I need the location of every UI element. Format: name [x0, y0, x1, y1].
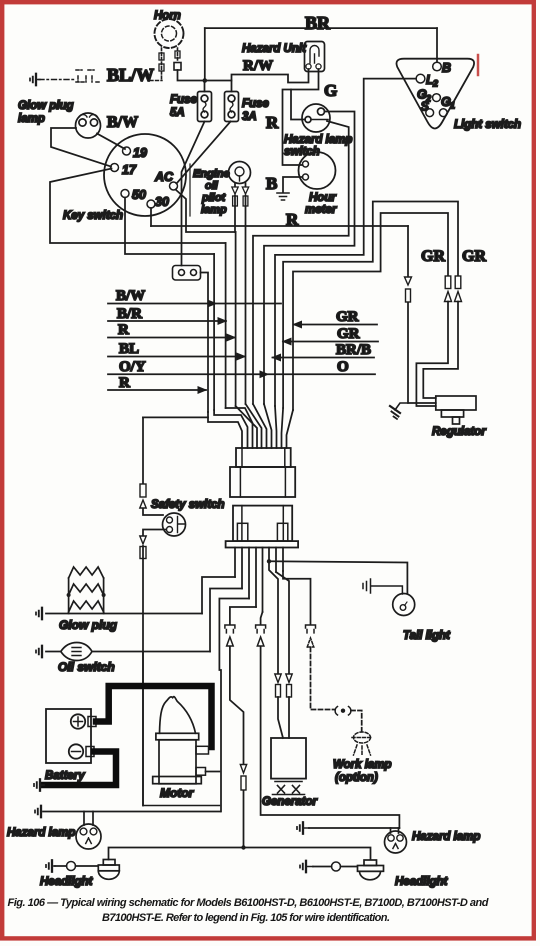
hazard lamp (left)	[76, 812, 101, 850]
ground (right hazard)	[297, 822, 303, 833]
svg-text:O: O	[337, 359, 349, 375]
node glow plug rails	[67, 593, 71, 597]
cable battery positive to motor (thick)	[96, 686, 212, 747]
svg-text:R: R	[286, 210, 299, 229]
wire left headlight lead	[55, 865, 98, 867]
svg-text:50: 50	[132, 188, 146, 202]
terminal AC	[170, 182, 178, 190]
wire below pair 1 to headlight bus	[230, 647, 244, 848]
svg-text:B: B	[266, 174, 277, 193]
svg-text:Glow plug: Glow plug	[18, 100, 74, 112]
wire lower comb from connector	[235, 548, 283, 613]
connector pair 2 (socket and plug)	[256, 625, 266, 646]
wire light switch B lead	[436, 28, 438, 61]
inline connector (right headlight)	[332, 862, 341, 871]
svg-text:B7100HST-E. Refer to legend in: B7100HST-E. Refer to legend in Fig. 105 …	[102, 912, 390, 924]
connector block upper (male)	[230, 448, 295, 497]
svg-text:Engine: Engine	[193, 168, 230, 180]
wire row R with arrow	[108, 334, 235, 340]
wire w7 to generator lead 2	[276, 572, 289, 738]
inline connector (left headlight)	[67, 862, 76, 871]
connector horn right lead (solid)	[174, 63, 181, 71]
connector pair 3 (work lamp, socket and dashed plug)	[306, 625, 316, 647]
generator	[271, 738, 306, 795]
svg-text:Safety switch: Safety switch	[151, 499, 225, 511]
wire hazard switch terminal to bundle	[264, 112, 355, 405]
wire glow lamp left lead to key 17	[51, 128, 111, 167]
svg-text:17: 17	[122, 163, 137, 177]
svg-text:Work lamp: Work lamp	[333, 759, 392, 771]
svg-text:Hour: Hour	[309, 192, 336, 204]
ground (left headlight)	[46, 860, 52, 871]
svg-text:lamp: lamp	[18, 113, 45, 125]
ground (regulator)	[390, 403, 408, 419]
wire row BR/B with arrow	[273, 354, 375, 360]
pointer line (oil lamp label)	[189, 164, 191, 216]
svg-text:B/R: B/R	[117, 306, 142, 322]
ground (tail light)	[363, 579, 402, 594]
svg-text:2: 2	[432, 79, 438, 89]
wire key 30 riser to R line	[150, 208, 152, 226]
svg-text:19: 19	[133, 146, 147, 160]
tail light	[393, 594, 415, 616]
wire glow plug bottom line	[46, 613, 202, 615]
wire fuse 3A bottom to AC	[177, 122, 231, 184]
svg-text:5A: 5A	[170, 107, 185, 119]
wire dash-dot horn button line BL/W	[39, 79, 74, 81]
svg-text:Motor: Motor	[160, 786, 195, 800]
ground (battery)	[34, 779, 40, 790]
terminal 17	[111, 164, 119, 172]
motor enclosure	[143, 652, 219, 806]
svg-text:lamp: lamp	[201, 204, 227, 216]
connector bullet (headlight wire)	[240, 765, 246, 791]
motor	[153, 697, 209, 784]
svg-text:AC: AC	[154, 170, 174, 184]
cable battery negative to ground (thick)	[44, 752, 116, 786]
svg-text:Oil switch: Oil switch	[58, 660, 115, 674]
wire fuse 5A top	[204, 83, 206, 92]
svg-text:BL: BL	[119, 341, 139, 357]
terminal 30	[147, 200, 155, 208]
wire row R bottom with arrow	[108, 387, 206, 393]
hazard lamp (right)	[385, 828, 407, 853]
connector (2-pin, key switch feed)	[173, 266, 201, 281]
work lamp (dashed symbol)	[352, 732, 372, 756]
svg-text:pilot: pilot	[201, 192, 227, 204]
hazard lamp switch	[302, 104, 330, 132]
wire tail light feed	[269, 561, 407, 593]
key switch	[104, 134, 186, 216]
wire right headlight lead	[313, 866, 357, 868]
svg-text:Horn: Horn	[154, 10, 181, 22]
red mark artifact	[477, 55, 480, 75]
wire dashes after BL/W	[150, 80, 162, 82]
connector bullet (GR2)	[445, 276, 452, 302]
wire motor terminal to w3	[206, 771, 220, 773]
svg-text:GR: GR	[421, 248, 445, 265]
fuse F2 3A	[225, 92, 239, 122]
wire work lamp (dashed)	[311, 648, 336, 710]
wire oil switch right to motor area	[92, 651, 210, 653]
wire safety switch lower with connector	[140, 530, 166, 806]
svg-text:Fuse: Fuse	[242, 98, 269, 110]
svg-text:B/W: B/W	[107, 114, 138, 131]
oil switch	[61, 643, 92, 661]
headlight (right)	[358, 860, 384, 880]
svg-text:G: G	[324, 81, 337, 100]
svg-text:B/W: B/W	[116, 288, 145, 304]
wire left hazard lamp bus	[43, 811, 220, 813]
wire oil lamp left lead with connector	[232, 183, 238, 232]
wire L2 to bundle	[275, 79, 416, 406]
svg-text:B: B	[442, 61, 451, 75]
svg-text:Hazard lamp: Hazard lamp	[412, 831, 480, 843]
ground (hour meter)	[277, 193, 289, 200]
hour meter	[299, 152, 336, 189]
glow plug element	[69, 567, 104, 614]
wire w2 to oil switch line	[210, 589, 242, 652]
ground (left hazard)	[35, 806, 41, 817]
wire BR (to light switch B)	[205, 27, 437, 29]
battery	[46, 709, 96, 763]
wire row BL with arrow	[108, 353, 245, 359]
connector block lower (female)	[226, 506, 299, 548]
svg-text:Generator: Generator	[262, 796, 317, 808]
node headlight bus junction	[241, 845, 245, 849]
svg-text:Headlight: Headlight	[395, 876, 449, 888]
wire key 17 down-left and to bundle (B/R)	[50, 169, 226, 244]
ground (glow plug)	[36, 608, 42, 619]
wire staircase into upper connector	[208, 404, 293, 448]
wire bundle v3 (B/R) lower	[225, 243, 227, 408]
wire w3 to hazard lamp bus	[219, 599, 249, 812]
wire w4 to connector pair 1	[230, 607, 256, 625]
wire bundle v2 (B/W) lower	[213, 254, 215, 410]
ground (right headlight)	[300, 861, 306, 872]
wire headlight bus	[109, 848, 371, 860]
wire BR riser	[204, 28, 206, 80]
wire oil switch left to ground	[46, 651, 61, 653]
ground (horn button line)	[36, 79, 40, 81]
wire row B/W with arrow	[108, 300, 281, 306]
fuse F1 5A	[198, 92, 212, 122]
svg-text:3A: 3A	[242, 111, 257, 123]
svg-text:1: 1	[450, 101, 455, 111]
wire row B/R with arrow	[108, 318, 226, 324]
svg-text:O/Y: O/Y	[119, 359, 146, 375]
connector bullet (R wire)	[405, 277, 412, 302]
wire row GR1 with arrow	[294, 321, 378, 327]
svg-text:Hazard lamp: Hazard lamp	[7, 827, 75, 839]
terminal L2	[416, 74, 425, 83]
svg-text:R: R	[266, 113, 279, 132]
wire GR arch 2 to regulator	[293, 213, 448, 410]
wire below pair 2 to right hazard bus	[261, 647, 400, 829]
svg-text:S: S	[421, 100, 430, 114]
wire horn to junction	[178, 70, 232, 81]
node junction fuse 5A / BR	[203, 78, 208, 83]
glow plug lamp	[76, 113, 101, 138]
node tail light junction	[267, 559, 271, 563]
hazard unit	[305, 42, 325, 72]
terminal 50	[121, 190, 129, 198]
wire w1 to glow plug line	[202, 577, 235, 614]
wire AC to bundle (R row)	[176, 190, 236, 233]
wire safety switch upper with connector	[140, 417, 163, 515]
wire hazard switch lever to bundle	[253, 121, 349, 404]
svg-text:Fuse: Fuse	[170, 94, 197, 106]
wire bundle v4 (R) lower	[235, 232, 237, 406]
svg-text:Regulator: Regulator	[432, 426, 486, 438]
svg-text:Tail light: Tail light	[403, 630, 451, 642]
wire fuse 5A bottom to 2-pin connector	[182, 122, 205, 266]
svg-text:Glow plug: Glow plug	[59, 618, 118, 632]
safety switch	[163, 513, 186, 536]
svg-text:R: R	[119, 375, 130, 391]
connector bullet (generator 1)	[275, 674, 281, 697]
wire right hazard line	[309, 827, 399, 829]
svg-text:Hazard Unit: Hazard Unit	[242, 43, 307, 55]
terminal B (light switch)	[433, 62, 442, 71]
connector bullet (GR1)	[455, 276, 462, 302]
wire R/W fuse 3A to hazard unit	[232, 69, 309, 92]
ground (oil switch)	[36, 646, 42, 657]
wire key 50 to bundle (B/W)	[125, 198, 214, 255]
connector inline (work lamp)	[335, 707, 351, 716]
svg-text:Key switch: Key switch	[63, 210, 123, 222]
wire work lamp drop 2 (dashed)	[351, 711, 362, 733]
engine oil pilot lamp	[229, 162, 251, 184]
wire oil lamp right lead with connector	[242, 183, 248, 404]
wire row O/Y - O with arrow	[108, 371, 375, 377]
wire glow lamp right to key 19	[97, 134, 125, 150]
svg-text:R: R	[118, 322, 129, 338]
wire hour meter to ground	[283, 177, 303, 192]
wire w6 to generator lead 1	[269, 561, 283, 738]
light switch	[396, 59, 474, 129]
svg-text:Headlight: Headlight	[40, 876, 94, 888]
svg-text:Fig. 106 — Typical wiring sche: Fig. 106 — Typical wiring schematic for …	[8, 897, 489, 909]
svg-text:BL/W: BL/W	[107, 65, 154, 85]
horn button (option) symbol	[76, 70, 101, 82]
terminal 19	[123, 147, 131, 155]
horn	[155, 19, 184, 48]
svg-text:Battery: Battery	[45, 770, 85, 782]
svg-text:BR: BR	[305, 13, 331, 33]
wire GR arch 1 to regulator	[283, 202, 458, 409]
wire safety switch feed tee	[143, 416, 208, 418]
wire w8 to work lamp drop	[283, 571, 311, 625]
svg-text:meter: meter	[305, 204, 337, 216]
svg-text:Hazard lamp: Hazard lamp	[284, 134, 352, 146]
wire connector exit to bundle	[201, 273, 209, 413]
wire w5 to connector pair 2	[261, 612, 263, 625]
svg-text:oil: oil	[205, 180, 219, 192]
svg-text:30: 30	[155, 195, 169, 209]
svg-text:(option): (option)	[335, 772, 378, 784]
connector pair 1 (socket and plug)	[225, 625, 235, 646]
svg-text:GR: GR	[462, 248, 486, 265]
connector bullet (generator 2)	[286, 674, 292, 697]
svg-text:GR: GR	[337, 326, 360, 342]
svg-text:R/W: R/W	[243, 58, 273, 74]
wire R to regulator with connector	[408, 226, 436, 403]
wire horn lead left (dashed with connectors)	[159, 48, 164, 80]
wire row GR2 with arrow	[283, 338, 378, 344]
headlight (left)	[98, 860, 119, 880]
svg-text:GR: GR	[336, 309, 359, 325]
wire R line to regulator drop	[151, 225, 408, 227]
svg-text:BR/B: BR/B	[336, 342, 371, 358]
wire G: hazard unit right pin to hour meter	[283, 69, 319, 165]
regulator	[436, 396, 476, 424]
svg-text:Light switch: Light switch	[454, 119, 521, 131]
wire horn lead right (dashed with connectors)	[175, 48, 180, 62]
wire G branch to hazard lamp switch	[291, 90, 305, 120]
